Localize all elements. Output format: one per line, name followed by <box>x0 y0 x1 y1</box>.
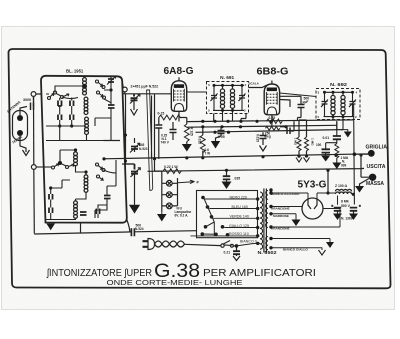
bus y132 <box>196 130 342 133</box>
svg-text:MARRONE: MARRONE <box>273 214 289 218</box>
svg-text:N. 1369: N. 1369 <box>341 216 353 220</box>
junction dots on buses <box>102 120 362 196</box>
capacitor 6B8 plate <box>287 128 290 135</box>
svg-text:7 W: 7 W <box>205 152 211 156</box>
wire to transformer bottom <box>237 244 253 246</box>
coil T2 primary <box>331 95 335 114</box>
ground bold arrow 100 <box>321 156 330 162</box>
coil L6 <box>74 201 78 218</box>
ground open arrow mains <box>233 256 240 261</box>
capacitor 0.015 (6B8 grid) <box>260 136 267 139</box>
selector row wires <box>191 199 258 236</box>
capacitor 0.01 <box>333 136 341 139</box>
svg-text:5Y3-G: 5Y3-G <box>298 180 327 191</box>
ground bold arrow center tap <box>292 220 301 227</box>
svg-text:0.015: 0.015 <box>197 136 201 144</box>
lamp wiring <box>162 178 178 212</box>
capacitor 500uuF diode <box>298 105 305 108</box>
wire filament top <box>271 193 353 199</box>
svg-text:6A8-G: 6A8-G <box>164 66 194 77</box>
heater wires 6.3 <box>271 239 330 248</box>
wires osc left <box>46 150 86 220</box>
wires 0.05 <box>216 127 222 141</box>
resistor R125 vertical <box>184 124 189 142</box>
wire MASSA down to ground <box>360 179 370 187</box>
trimmer cap T2 primary <box>321 100 328 108</box>
wire 6A8 bottom stub <box>178 111 180 121</box>
electrolytic cap 1 <box>334 208 341 211</box>
choke Z 100 ohm <box>336 189 352 194</box>
wire box bottom to 500uuF <box>127 220 130 232</box>
variable capacitor CV2 (osc) <box>131 164 141 205</box>
resistor 1M N.999 <box>335 144 339 159</box>
secondary 6.3V winding <box>266 236 268 249</box>
svg-text:999: 999 <box>341 163 347 167</box>
svg-text:Z 100 Ω: Z 100 Ω <box>335 184 348 188</box>
capacitor C-b2 <box>70 115 74 121</box>
resistor 0.22 1W <box>163 169 181 174</box>
wires osc right <box>95 160 116 218</box>
terminal dot GRIGLIA <box>368 150 375 157</box>
ground step arrow from bus3 <box>341 130 348 132</box>
lower bus of upper deck <box>46 118 120 141</box>
wires cap 0.015 <box>262 132 264 145</box>
terminal dot MASSA <box>369 174 376 181</box>
wire osc grid vertical <box>151 96 153 159</box>
capacitor C-o2 <box>49 208 53 214</box>
svg-text:0.21: 0.21 <box>224 251 231 255</box>
capacitor 0.01 mains <box>233 251 240 254</box>
open arrow under 0.015 <box>260 146 267 152</box>
wire to terminal B <box>36 166 51 168</box>
wire T2 sec down <box>333 117 343 130</box>
svg-text:0.25: 0.25 <box>269 116 276 120</box>
dashed box T1 <box>207 82 249 114</box>
svg-text:1 MΩ: 1 MΩ <box>311 138 315 146</box>
capacitor C-c1 top right <box>108 79 114 82</box>
wire osc grid down <box>126 94 135 164</box>
resistor 0.6 7W vertical <box>200 135 205 153</box>
trimmer cap T1 primary <box>211 94 218 102</box>
wires right column <box>104 76 111 105</box>
svg-text:0.01: 0.01 <box>323 136 330 140</box>
svg-text:MASSA: MASSA <box>366 181 384 187</box>
grid wire box to 6A8 <box>122 92 171 94</box>
capacitor cathode <box>170 130 177 133</box>
svg-text:BIANCO 0: BIANCO 0 <box>240 240 257 244</box>
junction dots T2 <box>323 91 354 118</box>
svg-text:6B8-G: 6B8-G <box>257 67 289 78</box>
bus B+ screen y121 <box>188 120 354 122</box>
svg-text:100: 100 <box>316 143 322 147</box>
capacitor C-b1 <box>70 101 74 107</box>
svg-text:μμF: μμF <box>303 100 309 104</box>
svg-text:0.22 1 W.: 0.22 1 W. <box>164 165 178 169</box>
ground bold arrow 0.05 <box>211 141 220 149</box>
trimmer C 345 N.523 <box>130 138 148 153</box>
terminal circle C on grid wire <box>122 87 127 92</box>
secondary 5V winding <box>266 191 268 200</box>
svg-text:0.015: 0.015 <box>256 134 260 142</box>
wire top bus in box <box>46 86 83 99</box>
svg-text:500 V: 500 V <box>341 204 351 208</box>
wire 0.01 vertical <box>336 121 338 143</box>
wire 6B8 plate up <box>280 100 290 108</box>
svg-text:2+451 μμF N.522: 2+451 μμF N.522 <box>131 84 159 88</box>
wire center tap <box>271 214 296 220</box>
switch S2b contacts <box>96 163 106 180</box>
bus USCITA y170 <box>148 168 365 171</box>
arrow P <box>178 180 195 184</box>
electrolytic cap 2 <box>350 208 357 211</box>
ground open arrow <box>23 150 30 156</box>
coil L1 (antenna, top) <box>83 78 87 95</box>
wires 6B8 diode <box>280 96 301 120</box>
svg-text:N.524: N.524 <box>135 227 144 231</box>
wire plate 2 <box>271 209 340 228</box>
wires 0.22 <box>155 159 164 183</box>
wire antenna to cap <box>20 107 27 116</box>
ground bold arrow under CV2 <box>129 205 140 214</box>
antenna-terra socket J1 <box>13 111 28 141</box>
primary feed wires <box>253 242 261 244</box>
wire terra to ground <box>20 136 26 152</box>
capacitor 100 <box>322 149 331 152</box>
bottom bus left <box>34 232 131 234</box>
lamp 1 <box>166 180 172 186</box>
capacitor C-o4 <box>80 212 87 215</box>
switch S2a contacts <box>52 162 75 170</box>
dial link strip <box>147 90 153 190</box>
wire 6A8 plate to T1 <box>187 91 207 93</box>
capacitor C-a1 <box>58 101 62 107</box>
wires 0.6 <box>202 128 204 158</box>
wire cap to terminal <box>33 97 35 107</box>
wire terminal into box <box>34 94 42 99</box>
ground bold arrow lamps <box>161 212 163 215</box>
wire bus to GRIGLIA <box>354 154 371 178</box>
selector box <box>197 191 258 238</box>
tube U1 6A8-G <box>171 77 186 111</box>
svg-text:Meg: Meg <box>264 135 270 139</box>
coil box outline <box>41 76 127 223</box>
wire choke to cap1 <box>337 196 339 205</box>
junction dot B+ bus <box>353 152 357 156</box>
vertical box bottom to bus <box>80 222 82 233</box>
ground bold arrow caps column <box>46 224 55 231</box>
ground bold arrow 1M <box>332 163 341 170</box>
svg-text:ONDE CORTE-MEDIE- LUNGHE: ONDE CORTE-MEDIE- LUNGHE <box>107 278 243 287</box>
wire osc cap to box <box>122 163 135 165</box>
wire 6B8 plate to T2 <box>280 93 316 97</box>
resistor 0.15 grid leak <box>159 115 181 120</box>
wires mains cap <box>233 246 236 256</box>
lamp 3 <box>166 203 172 209</box>
svg-text:R 125: R 125 <box>190 127 194 136</box>
capacitor C-o1 <box>49 194 53 200</box>
coil L5 <box>84 175 88 192</box>
wires caps column <box>60 98 86 127</box>
schematic border frame <box>8 49 390 288</box>
trimmer cap T2 secondary <box>349 100 356 108</box>
terminal circle B <box>31 165 36 170</box>
trimmer arrow <box>107 77 116 85</box>
wires .035 <box>226 170 228 181</box>
terminal circle A <box>31 92 36 97</box>
svg-text:6V. 0.2 A.: 6V. 0.2 A. <box>175 214 189 218</box>
capacitor C-o5 <box>97 209 100 215</box>
wires 1M N999 <box>336 158 338 163</box>
switch SW mains <box>185 241 234 248</box>
tube U3 5Y3-G <box>302 198 323 219</box>
coil L3 (lower) <box>85 117 89 134</box>
resistor 1Mohm a <box>297 137 301 151</box>
coil T2 secondary <box>341 95 345 114</box>
ground bold arrow MASSA <box>355 186 364 193</box>
switch S1b contacts <box>96 80 106 99</box>
capacitor C grid (left) <box>155 125 162 128</box>
dashed box T2 <box>316 89 360 120</box>
wires T1 top and bottom <box>213 85 244 121</box>
ground bold arrow .035 <box>222 182 232 190</box>
coil T1 primary <box>220 89 224 108</box>
wires cap100 <box>326 143 337 156</box>
open arrow 1M a <box>296 158 302 163</box>
bus y126.6 <box>188 125 337 127</box>
wire 6B8 bottom stub <box>271 115 273 127</box>
svg-text:N. 691: N. 691 <box>220 75 235 80</box>
capacitor C-o3 <box>104 196 111 199</box>
vertical B+ to USCITA line <box>327 170 329 193</box>
ground bold arrow cap2 <box>349 214 358 221</box>
wire terminal B down to bottom bus <box>33 170 36 234</box>
resistor 1Mohm b <box>305 137 309 151</box>
ground open arrow under CV1 <box>131 109 138 115</box>
coil L2 (middle) <box>84 97 88 114</box>
winding voltage labels <box>229 195 257 243</box>
svg-text:BIANCO GIALLO: BIANCO GIALLO <box>283 247 308 251</box>
wires caps osc <box>51 180 70 220</box>
junction dot mains <box>235 244 239 248</box>
svg-text:N.523: N.523 <box>139 147 148 151</box>
transformer T3 primary winding <box>260 192 263 249</box>
capacitor C-a2 <box>58 115 62 121</box>
wires T2 top and bottom <box>324 92 354 116</box>
trimmer cap T1 secondary <box>239 94 246 102</box>
left vertical wire to lower deck terminal <box>33 97 35 165</box>
junction dots upper deck <box>58 84 112 127</box>
long vertical B+ wire x353 <box>353 104 356 205</box>
junction dots T1 <box>213 84 244 112</box>
ground bold arrow under R125 <box>182 144 192 152</box>
svg-text:BL. 1951: BL. 1951 <box>66 69 84 74</box>
svg-text:GRIGLIA: GRIGLIA <box>366 145 388 151</box>
switch S1a contacts <box>48 91 70 100</box>
lamp 2 <box>166 192 172 198</box>
svg-text:3000: 3000 <box>23 98 31 102</box>
svg-text:N. 692: N. 692 <box>330 82 348 87</box>
svg-text:740 V: 740 V <box>161 141 170 145</box>
capacitor 500uuF series <box>131 228 134 236</box>
bus heater y164 short <box>104 140 121 142</box>
wire T1 pins down <box>214 114 246 122</box>
wire T1 sec to 6B8 grid cap <box>249 85 267 87</box>
svg-text:SCALA: SCALA <box>249 82 260 86</box>
capacitor .035 <box>223 176 230 179</box>
twisted cord <box>155 241 185 247</box>
secondary HV winding <box>266 204 268 228</box>
coil L4 <box>74 152 78 166</box>
resistor 250Meg <box>266 126 280 130</box>
plug X1 <box>143 239 155 250</box>
capacitor 3000 <box>31 103 34 111</box>
svg-text:1 MΩ: 1 MΩ <box>294 138 298 146</box>
svg-text:.035: .035 <box>234 177 241 181</box>
ground bold arrow cap1 <box>333 214 342 221</box>
coil T1 secondary <box>230 89 234 108</box>
resistor 0.25 <box>267 119 283 123</box>
svg-text:USCITA: USCITA <box>367 164 386 170</box>
open arrow 1M b <box>304 157 310 162</box>
tube U2 6B8-G <box>264 81 279 115</box>
selector contacts <box>201 196 230 237</box>
junction dots lower deck <box>49 148 87 189</box>
wires 1M pair <box>299 120 307 156</box>
wire plate 1 <box>271 206 302 208</box>
bottom bus right of 500uuF <box>134 231 196 232</box>
heater arrows <box>329 239 331 243</box>
wires R125 <box>186 118 188 145</box>
capacitor 0.05 <box>218 131 225 134</box>
bus AVC y158 <box>104 154 372 159</box>
variable capacitor CV1 <box>130 94 140 110</box>
transformer core <box>264 189 267 253</box>
svg-text:N. 5502: N. 5502 <box>258 250 278 255</box>
capacitor C-c2 <box>108 105 115 108</box>
wires around grid leak <box>155 94 187 159</box>
